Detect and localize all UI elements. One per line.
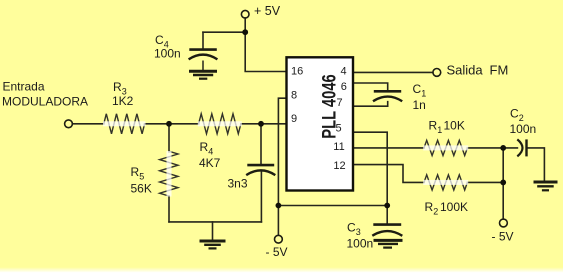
label 1K2 bbox=[112, 94, 134, 108]
svg-text:8: 8 bbox=[291, 89, 297, 101]
wire bottom run to 3n3 bbox=[169, 221, 261, 223]
svg-text:Salida: Salida bbox=[447, 63, 484, 78]
svg-text:11: 11 bbox=[333, 141, 344, 153]
wire node A down to R5 bbox=[168, 124, 170, 152]
svg-text:1n: 1n bbox=[413, 98, 426, 112]
svg-text:R: R bbox=[429, 119, 438, 133]
wire pin 6 to C1 bbox=[353, 83, 388, 90]
junction node D bbox=[500, 180, 506, 186]
svg-text:4K7: 4K7 bbox=[199, 156, 221, 170]
label C2 bbox=[510, 107, 524, 124]
wire node A to R4 bbox=[169, 123, 199, 125]
junction node +5V bbox=[242, 29, 248, 35]
label +5V bbox=[254, 4, 281, 18]
svg-text:1: 1 bbox=[437, 125, 442, 135]
svg-text:2: 2 bbox=[433, 207, 438, 217]
label Entrada MODULADORA bbox=[2, 80, 88, 109]
pin 5 label bbox=[335, 122, 341, 134]
svg-text:4: 4 bbox=[208, 147, 213, 157]
wire R3 to node A bbox=[145, 123, 169, 125]
pin 9 label bbox=[291, 113, 297, 125]
label C1 bbox=[413, 82, 427, 99]
svg-text:+ 5V: + 5V bbox=[254, 4, 281, 18]
label -5V right bbox=[492, 230, 514, 244]
label R1 10K bbox=[429, 119, 465, 136]
pin 6 label bbox=[341, 81, 347, 93]
label R5 bbox=[131, 165, 145, 182]
wire R2 to node D bbox=[467, 181, 503, 183]
svg-text:100K: 100K bbox=[440, 200, 468, 214]
ground for C3 bbox=[374, 240, 403, 247]
svg-text:C: C bbox=[510, 107, 519, 121]
resistor R1 10K bbox=[423, 140, 468, 155]
wire +5V down to pin16 bbox=[245, 32, 286, 71]
ground bottom-left bbox=[200, 241, 226, 248]
resistor R5 56K bbox=[160, 151, 178, 197]
junction node A bbox=[166, 121, 172, 127]
wire pin 12 jog to R2 bbox=[353, 165, 424, 183]
wire C1 to pin 7 bbox=[353, 102, 388, 107]
wire node C to C2 bbox=[503, 147, 517, 149]
svg-text:Entrada: Entrada bbox=[3, 80, 45, 94]
wire C2 to ground bbox=[527, 148, 545, 180]
label 1n bbox=[413, 98, 426, 112]
wire pin 5 down to rail bbox=[353, 132, 387, 205]
junction rail right bbox=[384, 203, 390, 209]
svg-text:1K2: 1K2 bbox=[112, 94, 134, 108]
label Salida FM bbox=[447, 63, 509, 78]
svg-text:56K: 56K bbox=[131, 181, 152, 195]
svg-text:16: 16 bbox=[291, 65, 303, 77]
label 3n3 bbox=[228, 177, 248, 191]
svg-text:R: R bbox=[200, 140, 209, 154]
terminal +5V bbox=[241, 10, 249, 18]
svg-text:R: R bbox=[131, 165, 140, 179]
svg-text:FM: FM bbox=[490, 63, 509, 78]
resistor R3 1K2 bbox=[103, 114, 146, 134]
label 56K bbox=[131, 181, 152, 195]
junction node B bbox=[258, 121, 264, 127]
terminal Salida FM bbox=[433, 69, 441, 77]
wire R4 to node B bbox=[241, 123, 261, 125]
resistor R4 4K7 bbox=[198, 114, 242, 134]
label R4 bbox=[200, 140, 214, 157]
junction node C bbox=[500, 145, 506, 151]
svg-text:100n: 100n bbox=[347, 237, 374, 251]
wire +5V to C4 top bbox=[203, 31, 245, 33]
wire pin 8 stub down to -5V rail bbox=[278, 98, 286, 205]
svg-text:R: R bbox=[113, 80, 122, 94]
label 100n C4 bbox=[154, 46, 181, 60]
label R3 bbox=[113, 80, 127, 97]
capacitor 3n3 bbox=[246, 165, 275, 175]
terminal -5V right bbox=[500, 219, 508, 227]
svg-text:C: C bbox=[155, 33, 164, 47]
svg-text:6: 6 bbox=[341, 81, 347, 93]
svg-text:R: R bbox=[425, 200, 434, 214]
svg-text:3n3: 3n3 bbox=[228, 177, 248, 191]
wire 3n3 top lead to node B bbox=[260, 124, 262, 165]
label C3 bbox=[347, 221, 361, 238]
label C4 bbox=[155, 33, 169, 50]
svg-text:4: 4 bbox=[340, 66, 346, 78]
svg-text:- 5V: - 5V bbox=[492, 230, 514, 244]
wire C4 top lead bbox=[202, 32, 204, 48]
wire pin 4 to Salida FM bbox=[353, 71, 433, 73]
pin 7 label bbox=[336, 97, 342, 109]
wire node B to pin 9 bbox=[261, 123, 287, 125]
svg-text:12: 12 bbox=[333, 160, 345, 172]
terminal Entrada bbox=[65, 120, 73, 128]
IC U1 PLL 4046 bbox=[287, 57, 354, 190]
ground for C4 bbox=[189, 71, 217, 78]
svg-text:MODULADORA: MODULADORA bbox=[2, 95, 88, 109]
svg-text:5: 5 bbox=[139, 172, 144, 182]
svg-text:C: C bbox=[413, 82, 422, 96]
terminal -5V left bbox=[275, 235, 283, 243]
wire node C to node D to -5V right bbox=[502, 148, 504, 219]
pin 16 label bbox=[291, 65, 303, 77]
capacitor C3 100n bbox=[372, 225, 402, 236]
wire C3 top lead bbox=[386, 206, 388, 224]
wire input to R3 bbox=[72, 123, 103, 125]
junction rail left bbox=[276, 203, 282, 209]
svg-text:9: 9 bbox=[291, 113, 297, 125]
svg-text:3: 3 bbox=[356, 227, 361, 237]
svg-text:C: C bbox=[347, 221, 356, 235]
pin 12 label bbox=[333, 160, 345, 172]
capacitor C4 100n bbox=[189, 50, 218, 70]
capacitor C2 100n bbox=[517, 139, 526, 156]
svg-text:5: 5 bbox=[335, 122, 341, 134]
label R2 100K bbox=[425, 200, 469, 217]
wire R5 bottom lead bbox=[168, 196, 170, 222]
wire -5V rail bbox=[278, 205, 387, 207]
resistor R2 100K bbox=[423, 175, 468, 190]
svg-text:10K: 10K bbox=[444, 119, 465, 133]
wire pin 11 to R1 bbox=[353, 147, 424, 149]
wire ground stem bottom-left bbox=[212, 222, 214, 240]
svg-text:100n: 100n bbox=[154, 46, 181, 60]
pin 8 label bbox=[291, 89, 297, 101]
capacitor C1 1n bbox=[373, 91, 402, 101]
svg-text:100n: 100n bbox=[510, 122, 537, 136]
pin 4 label bbox=[340, 66, 346, 78]
label 4K7 bbox=[199, 156, 221, 170]
pin 11 label bbox=[333, 141, 344, 153]
wire rail to -5V terminal left bbox=[277, 206, 279, 236]
label 100n C2 bbox=[510, 122, 537, 136]
ground for C2 bbox=[534, 182, 558, 190]
wire 3n3 bottom lead bbox=[260, 172, 262, 222]
label -5V left bbox=[266, 245, 288, 259]
label 100n C3 bbox=[347, 237, 374, 251]
wire +5V terminal drop bbox=[244, 18, 246, 32]
wire R1 to node C bbox=[467, 147, 503, 149]
svg-text:7: 7 bbox=[336, 97, 342, 109]
svg-text:- 5V: - 5V bbox=[266, 245, 288, 259]
